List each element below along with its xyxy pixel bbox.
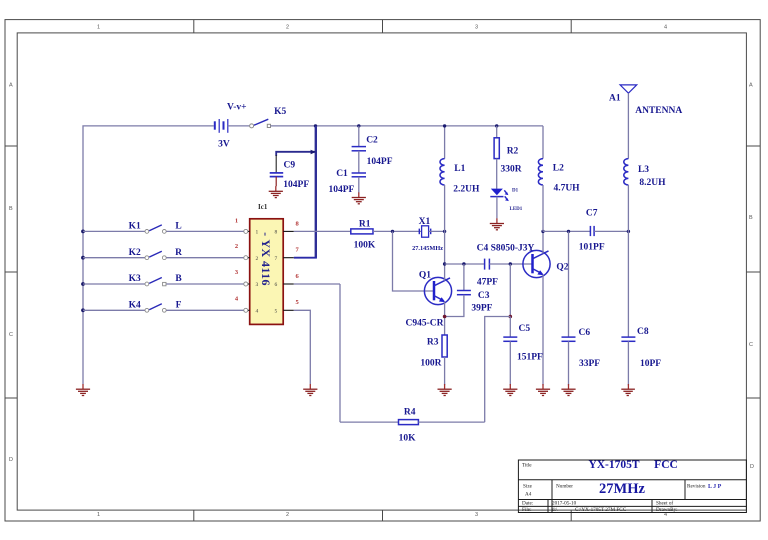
ground R3 (438, 384, 452, 396)
svg-text:Q2: Q2 (556, 263, 568, 273)
wire Q2 emitter down to ground (542, 275, 544, 386)
svg-text:ANTENNA: ANTENNA (635, 106, 682, 116)
inductor L3 (624, 159, 629, 232)
wire pin8 to R1 (294, 230, 351, 232)
wire Q2 base down to C5 node (509, 264, 511, 317)
svg-text:2.2UH: 2.2UH (453, 184, 480, 194)
wire K3 to pin3 (166, 283, 243, 285)
svg-text:B: B (175, 274, 182, 284)
svg-text:L: L (175, 222, 181, 232)
svg-text:2: 2 (286, 25, 289, 31)
ground C5 (503, 384, 517, 396)
svg-text:C7: C7 (586, 209, 598, 219)
node L3 bottom junction (627, 230, 630, 233)
svg-text:C1: C1 (336, 169, 348, 179)
wire Q1 collector up (444, 231, 446, 280)
svg-text:27MHz: 27MHz (599, 481, 645, 497)
svg-text:Sheet of: Sheet of (656, 500, 673, 507)
transistor Q1 (424, 277, 451, 304)
wire pin5 right and down (294, 310, 311, 384)
wire C2 lead (358, 126, 360, 146)
svg-text:LED1: LED1 (510, 207, 523, 212)
svg-text:3: 3 (475, 512, 478, 518)
svg-text:Ic1: Ic1 (258, 203, 268, 211)
svg-text:8.2UH: 8.2UH (639, 178, 666, 188)
wire R4 to right drop (418, 421, 484, 423)
capacitor C6 (562, 231, 576, 385)
svg-text:R4: R4 (404, 407, 416, 417)
svg-text:L1: L1 (454, 164, 465, 174)
wire LED to ground (496, 197, 498, 219)
svg-text:YX-1705T: YX-1705T (588, 459, 639, 471)
svg-text:B: B (9, 206, 13, 212)
svg-text:4: 4 (664, 25, 667, 31)
node K4 bus junction (81, 308, 85, 312)
wire pin7 to thick vertical (294, 257, 317, 259)
svg-text:FCC: FCC (654, 459, 678, 471)
TITLEBLOCK (518, 459, 746, 513)
wire C2 to C1 (358, 151, 360, 173)
node C2 junction (357, 124, 360, 127)
pin 6 (275, 273, 300, 288)
svg-text:Number: Number (556, 484, 573, 490)
svg-text:K2: K2 (129, 248, 141, 258)
resistor R2 (494, 126, 499, 189)
svg-text:C4 S8050-J3Y: C4 S8050-J3Y (477, 244, 535, 254)
svg-text:5: 5 (275, 309, 278, 315)
svg-text:104PF: 104PF (283, 180, 309, 190)
svg-text:K1: K1 (129, 222, 141, 232)
wire X1 to L1 node (429, 230, 445, 232)
wire top rail left from bus to battery (83, 126, 214, 384)
svg-text:1: 1 (256, 230, 259, 236)
svg-text:C9: C9 (283, 161, 295, 171)
pin 1 (235, 217, 259, 235)
svg-text:C:\YX-1705T 27M FCC: C:\YX-1705T 27M FCC (575, 507, 627, 513)
svg-text:1: 1 (97, 512, 100, 518)
svg-text:File:: File: (522, 507, 532, 513)
svg-text:6: 6 (275, 282, 278, 288)
capacitor C9 (270, 173, 284, 186)
svg-text:L J P: L J P (708, 484, 722, 490)
svg-text:47PF: 47PF (477, 277, 498, 287)
node K1 bus junction (81, 230, 85, 234)
wire K2 to pin2 (166, 257, 243, 259)
pin 3 (235, 269, 259, 288)
svg-text:B: B (749, 215, 753, 221)
resistor R4 (399, 420, 419, 425)
switch K5 (250, 119, 271, 128)
inductor L2 (538, 126, 543, 231)
svg-text:C3: C3 (478, 291, 490, 301)
svg-text:10K: 10K (399, 433, 417, 443)
svg-text:4.7UH: 4.7UH (553, 184, 580, 194)
capacitor C8 (621, 231, 635, 385)
svg-text:DrawnBy:: DrawnBy: (656, 507, 678, 513)
svg-text:R2: R2 (507, 147, 519, 157)
svg-text:7: 7 (275, 256, 278, 262)
switch K1 (145, 225, 166, 233)
ground C6 (561, 384, 575, 396)
ground Q2 (536, 384, 550, 396)
wire R3 to ground (444, 357, 446, 385)
svg-text:33PF: 33PF (579, 359, 600, 369)
ground left bus (76, 384, 90, 396)
crystal X1 (419, 226, 430, 237)
wire C9 top L (276, 152, 315, 156)
capacitor C1 (352, 173, 366, 177)
resistor R3 (442, 335, 447, 357)
svg-text:K3: K3 (129, 274, 141, 284)
wire pin6 right (294, 283, 340, 285)
wire K5 to node V (271, 125, 316, 127)
resistor R1 (351, 229, 373, 234)
svg-text:8: 8 (275, 230, 278, 236)
svg-text:- YX 4116: - YX 4116 (259, 232, 273, 286)
wire thick vertical node V to IC pin7 (315, 126, 317, 258)
node L1 bottom junction (443, 230, 446, 233)
LED D1 (490, 189, 509, 202)
op IC U1 YX4116 (250, 219, 284, 325)
wire K4 to pin4 (166, 309, 243, 311)
wire rail y264 collector to C4 (445, 263, 485, 265)
node L2 bottom junction (541, 230, 544, 233)
svg-text:C: C (9, 332, 13, 338)
svg-text:3: 3 (256, 282, 259, 288)
wire K1 to pin1 (166, 230, 243, 232)
svg-text:Q1: Q1 (419, 271, 431, 281)
svg-text:C8: C8 (637, 327, 649, 337)
wire Q1 emitter down (444, 302, 446, 336)
svg-text:104PF: 104PF (367, 157, 393, 167)
wire C7 to L3 node (594, 230, 628, 232)
svg-text:3: 3 (475, 25, 478, 31)
wire Q2 collector up (542, 231, 544, 253)
pin 4 (235, 295, 259, 314)
svg-text:C945-CR: C945-CR (406, 319, 444, 329)
node K2 bus junction (81, 256, 85, 260)
svg-text:K4: K4 (129, 300, 141, 310)
svg-text:104PF: 104PF (328, 185, 354, 195)
svg-text:X1: X1 (419, 217, 431, 227)
svg-text:A4: A4 (525, 492, 532, 498)
pin 7 (275, 247, 300, 262)
svg-text:L3: L3 (638, 165, 649, 175)
svg-text:Title: Title (522, 463, 532, 469)
svg-text:D: D (9, 457, 13, 463)
svg-text:F: F (176, 300, 182, 310)
svg-text:L2: L2 (553, 164, 564, 174)
svg-text:C6: C6 (579, 328, 591, 338)
transistor Q2 (523, 250, 550, 277)
svg-text:3V: 3V (218, 140, 230, 150)
svg-text:D: D (750, 464, 754, 470)
wire K4 row (83, 309, 149, 311)
svg-text:2017-05-10: 2017-05-10 (552, 501, 577, 507)
svg-text:330R: 330R (500, 164, 521, 174)
svg-text:A: A (749, 83, 753, 89)
svg-text:A1: A1 (609, 94, 621, 104)
wire R1 to X1 (373, 230, 422, 232)
svg-text:101PF: 101PF (579, 242, 605, 252)
svg-text:Revision: Revision (687, 484, 706, 490)
svg-text:K5: K5 (274, 107, 286, 117)
antenna A1 (620, 85, 637, 159)
svg-text:2: 2 (235, 243, 238, 250)
ground C8 (621, 384, 635, 396)
svg-text:Date:: Date: (522, 501, 534, 507)
svg-text:10PF: 10PF (640, 359, 661, 369)
svg-text:Size: Size (523, 484, 533, 490)
svg-text:2: 2 (256, 256, 259, 262)
svg-text:A: A (9, 83, 13, 89)
svg-text:D1: D1 (512, 189, 519, 194)
svg-text:2: 2 (286, 512, 289, 518)
switch K4 (145, 304, 166, 312)
svg-text:d:\: d:\ (552, 507, 558, 513)
svg-text:V-v+: V-v+ (227, 102, 246, 112)
ground C1 (352, 192, 366, 204)
wire K3 row (83, 283, 149, 285)
node Q1 emitter junction (443, 315, 447, 319)
capacitor C4 (485, 259, 490, 270)
wire top rail node V to L2 top (316, 125, 544, 127)
wire C4 to Q2 base (489, 263, 532, 265)
node Q2 base junction (509, 262, 512, 265)
node R2 top junction (495, 124, 498, 127)
svg-text:C2: C2 (366, 135, 378, 145)
switch K2 (145, 251, 166, 259)
switch K3 (145, 278, 166, 286)
node Q1 collector rail junction (443, 262, 446, 265)
node C6 junction (567, 230, 570, 233)
svg-text:151PF: 151PF (517, 353, 543, 363)
wire Q1 base L (393, 231, 435, 291)
wire battery to K5 (228, 125, 250, 127)
capacitor C5 (503, 317, 517, 386)
inductor L1 (440, 126, 445, 231)
svg-text:1: 1 (97, 25, 100, 31)
wire C5 node left to R4 drop (485, 317, 511, 423)
svg-text:27.145MHz: 27.145MHz (412, 245, 443, 252)
node K3 bus junction (81, 282, 85, 286)
svg-text:100K: 100K (354, 241, 376, 251)
wire R4 row (340, 421, 399, 423)
ground LED (490, 218, 504, 230)
svg-text:1: 1 (235, 217, 238, 224)
wire C1 to ground (358, 177, 360, 193)
node Q1 base junction (391, 230, 394, 233)
svg-text:R3: R3 (427, 338, 439, 348)
ground pin5 (303, 384, 317, 396)
wire rail L2 to C7 (543, 230, 590, 232)
wire K1 row (83, 230, 149, 232)
pin 8 (275, 220, 300, 235)
svg-text:4: 4 (256, 309, 259, 315)
ground C9 (269, 186, 283, 198)
node C5 junction (509, 315, 513, 319)
node L1 top junction (443, 124, 446, 127)
capacitor C2 (352, 147, 366, 151)
capacitor C3 (445, 264, 471, 317)
capacitor C7 (590, 226, 594, 236)
wire K2 row (83, 257, 149, 259)
wire pin6 down to R4 row (339, 284, 341, 422)
svg-text:39PF: 39PF (471, 304, 492, 314)
svg-text:R: R (175, 248, 182, 258)
svg-text:C5: C5 (519, 324, 531, 334)
pin 5 (275, 299, 300, 314)
node C3 top junction (462, 262, 465, 265)
svg-text:R1: R1 (359, 220, 371, 230)
node V junction (314, 124, 317, 127)
pin 2 (235, 243, 259, 262)
battery 3V (215, 119, 228, 133)
svg-text:C: C (749, 342, 753, 348)
svg-text:100R: 100R (420, 359, 441, 369)
